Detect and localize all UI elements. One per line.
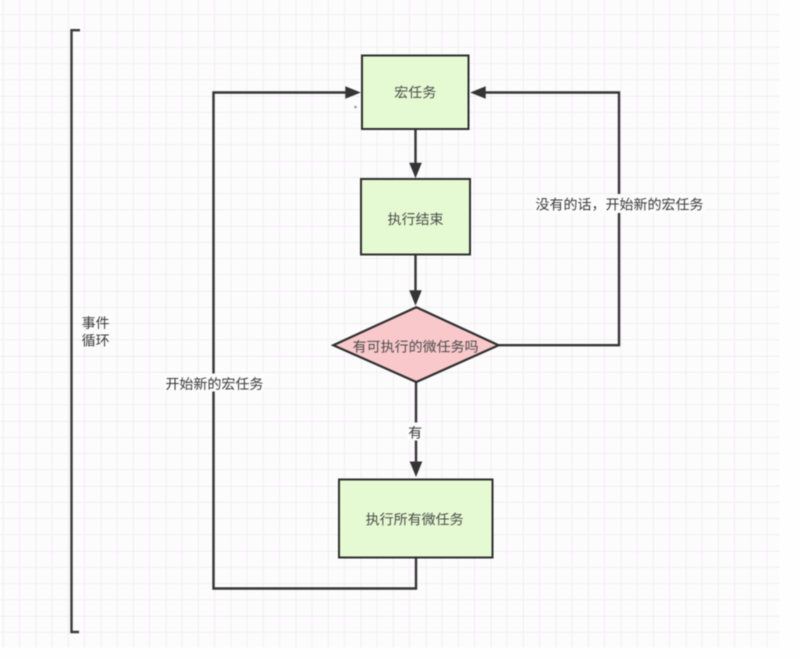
- decision diamond 有可执行的微任务吗: [333, 307, 498, 382]
- label 开始新的宏任务: [164, 374, 264, 392]
- arrowhead into 宏任务 right: [470, 86, 486, 99]
- wire 宏任务 -> 执行结束: [414, 129, 416, 164]
- wire 执行结束 -> diamond: [414, 254, 416, 291]
- wire left loop: up from bottom, across to 宏任务: [214, 93, 417, 589]
- process box 执行所有微任务: [339, 480, 493, 558]
- bracket (event-loop brace): [72, 30, 81, 632]
- label 没有的话，开始新的宏任务: [533, 194, 705, 213]
- arrowhead into 宏任务 left: [345, 86, 361, 99]
- label 有: [407, 423, 423, 441]
- process box 执行结束: [361, 179, 470, 255]
- process box 宏任务: [362, 56, 469, 130]
- wire diamond -> 执行所有微任务: [415, 382, 417, 464]
- wire right loop: from diamond right vertex up to 宏任务: [484, 93, 619, 346]
- label 事件 循环: [82, 316, 109, 329]
- stray dot speck: [354, 106, 357, 109]
